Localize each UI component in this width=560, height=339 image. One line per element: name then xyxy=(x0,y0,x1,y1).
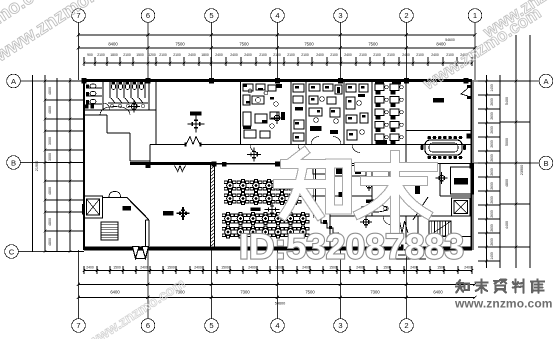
svg-text:54600: 54600 xyxy=(275,302,286,306)
svg-text:3: 3 xyxy=(338,321,342,330)
svg-text:4: 4 xyxy=(275,321,279,330)
svg-text:4800: 4800 xyxy=(48,238,52,246)
svg-text:2600: 2600 xyxy=(490,210,494,218)
left room zig vertical x150 xyxy=(149,145,151,164)
svg-text:2100: 2100 xyxy=(259,53,267,57)
wall vertical x156 xyxy=(155,80,157,145)
svg-text:6400: 6400 xyxy=(110,290,120,295)
svg-text:2600: 2600 xyxy=(490,238,494,246)
svg-text:1500: 1500 xyxy=(221,266,229,270)
right room cross xyxy=(436,172,448,184)
svg-text:2100: 2100 xyxy=(273,53,281,57)
oval table xyxy=(362,205,387,212)
svg-text:3000: 3000 xyxy=(48,137,52,145)
grid bubbles top xyxy=(72,9,86,23)
right dimension lines xyxy=(487,35,531,268)
svg-text:1500: 1500 xyxy=(167,266,175,270)
svg-text:2600: 2600 xyxy=(490,154,494,162)
cross left room xyxy=(177,207,190,220)
odd room top wall y197 xyxy=(103,197,127,199)
svg-text:5: 5 xyxy=(209,11,213,20)
svg-text:2100: 2100 xyxy=(173,53,181,57)
svg-text:1200: 1200 xyxy=(148,53,156,57)
svg-text:3000: 3000 xyxy=(48,153,52,161)
elevator left shaft xyxy=(84,196,103,218)
svg-text:7300: 7300 xyxy=(240,290,250,295)
svg-text:7: 7 xyxy=(76,321,80,330)
restaurant cross xyxy=(265,202,280,217)
wall toilet bottom y110 xyxy=(84,109,156,111)
conference table xyxy=(425,140,462,155)
stairs left xyxy=(101,222,118,240)
svg-text:5000: 5000 xyxy=(505,138,509,146)
toilet fixtures left group xyxy=(90,84,96,88)
hatched partition wall x212 xyxy=(210,165,212,247)
left room zig wall y161 xyxy=(130,160,150,162)
core room walls x372-406 xyxy=(372,177,406,179)
toilet stall doors diagonal xyxy=(111,98,116,104)
svg-text:21900: 21900 xyxy=(35,161,39,172)
office room5 workstations x372-406 xyxy=(375,84,403,144)
left dimension lines xyxy=(33,75,71,252)
toilet lavatory counter xyxy=(108,102,148,104)
svg-text:2400: 2400 xyxy=(188,53,196,57)
core wall y196 xyxy=(310,195,372,197)
double door bottom-left trapezoids xyxy=(133,247,140,259)
svg-text:4800: 4800 xyxy=(48,87,52,95)
svg-text:23900: 23900 xyxy=(520,165,524,176)
office partition x406 xyxy=(405,80,407,164)
svg-text:2400: 2400 xyxy=(344,53,352,57)
wall corridor bottom y163.5 xyxy=(130,162,214,165)
svg-text:2600: 2600 xyxy=(490,140,494,148)
svg-text:7500: 7500 xyxy=(304,42,314,47)
grid bubble B right xyxy=(539,156,553,170)
entrance outside steps xyxy=(398,254,424,256)
svg-text:2400: 2400 xyxy=(316,53,324,57)
svg-text:4800: 4800 xyxy=(48,187,52,195)
black column y163 x214 xyxy=(212,162,217,167)
black column y163 x277 xyxy=(275,162,280,167)
watermark diagonal bottom-left xyxy=(84,275,188,339)
watermark big ZHI char xyxy=(278,152,347,215)
core furniture marks xyxy=(376,166,386,170)
core small rooms verticals xyxy=(405,216,407,247)
left room wall y115 xyxy=(84,114,107,116)
svg-text:2600: 2600 xyxy=(490,196,494,204)
black bar left wall xyxy=(82,204,85,215)
svg-text:2100: 2100 xyxy=(159,53,167,57)
building right wall xyxy=(471,80,473,250)
toilet left wall fixtures xyxy=(85,105,88,109)
svg-text:7300: 7300 xyxy=(370,290,380,295)
bottom dimension lines xyxy=(79,271,475,298)
core wall x330 xyxy=(329,164,331,247)
conference room top wall y130.5 xyxy=(406,130,472,132)
office partition x344 xyxy=(343,80,345,145)
restaurant right wall x315.5 xyxy=(315,164,317,219)
toilet stall partitions vertical group xyxy=(109,82,111,98)
svg-text:7500: 7500 xyxy=(175,42,185,47)
top-right room door xyxy=(467,85,472,88)
conference corner block xyxy=(467,134,472,139)
grid bubble C left xyxy=(5,245,19,259)
svg-text:2100: 2100 xyxy=(97,53,105,57)
svg-text:2100: 2100 xyxy=(359,53,367,57)
svg-text:2600: 2600 xyxy=(490,98,494,106)
office room2 furniture x291-306 xyxy=(293,84,304,92)
svg-text:6400: 6400 xyxy=(433,290,443,295)
core wall y216 xyxy=(330,215,472,217)
svg-text:3: 3 xyxy=(338,11,342,20)
svg-text:2100: 2100 xyxy=(287,53,295,57)
vestibule double door xyxy=(396,221,408,233)
stairs right xyxy=(429,221,451,236)
right wall column xyxy=(470,163,475,169)
dimension ticks top xyxy=(77,33,477,66)
svg-text:8400: 8400 xyxy=(436,42,446,47)
right dimension ticks xyxy=(478,80,530,263)
building top wall xyxy=(84,79,472,82)
toilet fixtures vertical group xyxy=(111,83,115,89)
svg-text:2: 2 xyxy=(404,321,408,330)
svg-text:900: 900 xyxy=(87,53,93,57)
toilet wall x103 xyxy=(102,82,104,110)
svg-text:2600: 2600 xyxy=(490,112,494,120)
svg-text:2400: 2400 xyxy=(230,53,238,57)
stair black marks xyxy=(323,220,327,224)
svg-text:5: 5 xyxy=(209,321,213,330)
reception desk xyxy=(313,168,327,174)
svg-text:2100: 2100 xyxy=(330,53,338,57)
double door below corridor wall xyxy=(175,166,186,172)
office partition x372 xyxy=(371,80,373,145)
svg-text:6: 6 xyxy=(146,11,150,20)
left room zig wall y133 xyxy=(107,132,130,134)
svg-text:4400: 4400 xyxy=(505,221,509,229)
svg-text:2400: 2400 xyxy=(215,53,223,57)
office partition x291 xyxy=(290,80,292,145)
restaurant round tables group1 xyxy=(224,179,236,191)
entrance steps zigzag xyxy=(321,218,339,233)
svg-text:ID:532087883: ID:532087883 xyxy=(239,227,464,267)
svg-text:54600: 54600 xyxy=(445,38,455,42)
svg-text:2400: 2400 xyxy=(402,53,410,57)
entrance door bottom xyxy=(402,244,420,252)
top wall column blocks xyxy=(81,78,86,83)
svg-text:5400: 5400 xyxy=(505,97,509,105)
core cross1 xyxy=(363,179,375,191)
core room wall y196 right xyxy=(440,195,472,197)
left room zig vertical x107 xyxy=(106,115,108,133)
svg-text:2600: 2600 xyxy=(490,168,494,176)
svg-text:7500: 7500 xyxy=(368,42,378,47)
office room3 door arcs xyxy=(311,137,319,145)
elevator right shaft xyxy=(452,198,471,216)
top-right room black table xyxy=(433,98,444,103)
door arcs on corridor xyxy=(250,145,258,153)
odd room door arcs on top xyxy=(109,192,121,198)
core wall x440 xyxy=(439,164,441,197)
big room double door xyxy=(186,143,200,146)
office room1 cross xyxy=(271,112,283,124)
office room4 furniture x344-372 xyxy=(346,84,368,140)
toilet entry door hump xyxy=(100,107,130,115)
svg-text:2100: 2100 xyxy=(373,53,381,57)
big room door jambs xyxy=(185,143,187,147)
watermark diagonal top-left xyxy=(0,0,131,67)
svg-text:C: C xyxy=(9,247,15,256)
core cross2 xyxy=(360,216,372,228)
svg-text:2100: 2100 xyxy=(387,53,395,57)
office room1 furniture x240-291 xyxy=(243,84,279,138)
restaurant dash symbol xyxy=(251,208,261,212)
grid row lines xyxy=(19,81,540,252)
grid bubble A right xyxy=(539,74,553,88)
right lower room line xyxy=(429,236,472,238)
grid bubble A left xyxy=(7,74,21,88)
svg-text:www.znzmo.com: www.znzmo.com xyxy=(454,297,553,311)
svg-text:1: 1 xyxy=(473,11,477,20)
grid column lines xyxy=(79,23,476,319)
restaurant round tables group2 xyxy=(222,212,234,224)
toilet inner door arc xyxy=(103,103,110,110)
svg-text:4800: 4800 xyxy=(48,106,52,114)
big room cross xyxy=(188,116,205,133)
svg-text:2600: 2600 xyxy=(490,224,494,232)
svg-text:2600: 2600 xyxy=(490,182,494,190)
odd room diagonal wall xyxy=(127,198,149,221)
odd room table black xyxy=(123,206,132,211)
svg-text:6: 6 xyxy=(146,321,150,330)
black column y163 x306 xyxy=(305,162,310,167)
wall office bottom y144.5 xyxy=(150,144,472,146)
office partition x240 xyxy=(240,80,242,145)
svg-text:8400: 8400 xyxy=(108,42,118,47)
svg-text:2100: 2100 xyxy=(123,53,131,57)
big room dash table xyxy=(190,112,202,116)
svg-text:1500: 1500 xyxy=(113,266,121,270)
black rect mid lobby xyxy=(339,192,344,197)
restaurant top wall black columns xyxy=(222,162,227,167)
svg-text:7500: 7500 xyxy=(239,42,249,47)
svg-text:2400: 2400 xyxy=(194,266,202,270)
svg-text:2400: 2400 xyxy=(431,53,439,57)
svg-text:B: B xyxy=(543,159,548,168)
svg-text:4800: 4800 xyxy=(505,179,509,187)
toilet stall partitions horizontal group xyxy=(86,87,102,89)
logo text znzmo library (custom glyphs) xyxy=(456,280,469,292)
grid bubbles bottom xyxy=(72,319,86,333)
elevator left X xyxy=(87,199,100,215)
dimension ticks bottom xyxy=(77,266,477,299)
corridor cross symbol xyxy=(247,148,261,162)
svg-text:2: 2 xyxy=(404,11,408,20)
svg-text:B: B xyxy=(11,158,16,167)
svg-text:1400: 1400 xyxy=(490,84,494,92)
svg-text:2100: 2100 xyxy=(301,53,309,57)
top dimension lines xyxy=(79,35,476,63)
office room3 furniture x306-344 xyxy=(309,84,342,123)
svg-text:2100: 2100 xyxy=(416,53,424,57)
grid bubble B left xyxy=(7,156,21,170)
office partition x306 xyxy=(305,80,307,145)
svg-text:2400: 2400 xyxy=(86,266,94,270)
core wall x372 xyxy=(371,164,373,217)
svg-text:1500: 1500 xyxy=(136,53,144,57)
odd room right wall double x146-149 xyxy=(145,220,147,246)
svg-text:1800: 1800 xyxy=(201,53,209,57)
svg-text:2600: 2600 xyxy=(490,126,494,134)
svg-text:4800: 4800 xyxy=(48,218,52,226)
svg-text:2400: 2400 xyxy=(140,266,148,270)
pantry cabinets xyxy=(334,166,366,177)
svg-text:1800: 1800 xyxy=(110,53,118,57)
building left wall xyxy=(83,80,85,250)
toilet cross xyxy=(128,101,140,113)
svg-text:2400: 2400 xyxy=(244,53,252,57)
watermark diagonal top-right xyxy=(419,0,560,94)
right rooms box with bar xyxy=(451,167,474,194)
dash symbol left room xyxy=(163,211,174,216)
svg-text:7500: 7500 xyxy=(305,290,315,295)
svg-text:1400: 1400 xyxy=(490,252,494,260)
watermark big MO char xyxy=(359,155,433,230)
svg-text:4: 4 xyxy=(275,11,279,20)
stair diagonal band xyxy=(413,197,428,220)
building bottom wall xyxy=(84,247,404,251)
svg-text:2400: 2400 xyxy=(464,266,472,270)
left room zig vertical x130 xyxy=(129,133,131,161)
conference chairs xyxy=(421,136,467,159)
toilet wall x149 xyxy=(148,82,150,110)
left dimension ticks xyxy=(44,80,84,253)
column block x148 y165 xyxy=(146,164,151,169)
